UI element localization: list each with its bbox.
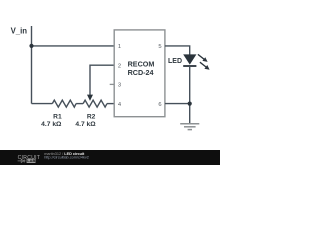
- svg-text:1: 1: [118, 44, 121, 50]
- svg-text:3: 3: [118, 83, 121, 89]
- footer logo LAB: [27, 159, 36, 163]
- wire bottom left to R1: [32, 103, 53, 105]
- wire between R1 and R2: [76, 103, 83, 105]
- R2 wiper arrowhead: [87, 95, 93, 101]
- wire V_in terminal lead: [31, 26, 33, 46]
- ground symbol: [180, 123, 199, 125]
- junction dot at V_in node: [29, 44, 33, 48]
- LED D1 triangle: [183, 54, 196, 64]
- footer bar: [0, 150, 220, 165]
- wire pin 6 to ground node: [165, 103, 190, 105]
- wire left vertical down: [31, 46, 33, 104]
- wire pin 5 to LED anode: [165, 46, 190, 55]
- svg-text:LED: LED: [168, 58, 182, 65]
- svg-text:R2: R2: [87, 114, 96, 121]
- svg-text:2: 2: [118, 63, 121, 69]
- wire top horizontal to pin 1: [32, 45, 115, 47]
- wire LED cathode down to ground: [189, 66, 191, 124]
- svg-text:4.7 kΩ: 4.7 kΩ: [75, 121, 96, 128]
- junction dot at ground node: [188, 102, 192, 106]
- svg-text:5: 5: [158, 44, 161, 50]
- IC U1 box RECOM RCD-24: [114, 30, 165, 117]
- LED cathode bar: [183, 65, 196, 67]
- wire R2 to pin 4: [107, 103, 114, 105]
- svg-text:LAB: LAB: [27, 158, 35, 163]
- svg-text:V_in: V_in: [11, 26, 28, 35]
- wire pin 2 to R2 wiper: [90, 65, 114, 96]
- svg-text:6: 6: [158, 102, 161, 108]
- svg-text:R1: R1: [53, 114, 62, 121]
- footer logo diode row: [18, 160, 21, 162]
- svg-text:4.7 kΩ: 4.7 kΩ: [41, 121, 62, 128]
- svg-text:RCD-24: RCD-24: [128, 68, 154, 77]
- svg-text:http://circuitlab.com/c/4kv2: http://circuitlab.com/c/4kv2: [44, 155, 89, 159]
- resistor R2 (potentiometer body): [83, 100, 107, 107]
- resistor R1: [52, 100, 76, 107]
- LED emission arrow 1: [198, 54, 204, 59]
- LED emission arrow 2: [200, 62, 206, 67]
- pin 3 stub (unconnected): [110, 83, 115, 85]
